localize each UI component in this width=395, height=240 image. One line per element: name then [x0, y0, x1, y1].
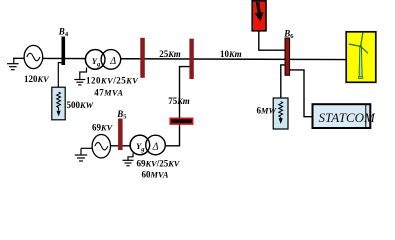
svg-text:Δ: Δ [109, 56, 116, 67]
svg-text:500KW: 500KW [67, 100, 94, 110]
svg-text:47MVA: 47MVA [94, 87, 123, 97]
svg-text:120KV/25KV: 120KV/25KV [86, 76, 139, 86]
svg-text:69KV: 69KV [92, 123, 114, 133]
svg-text:10Km: 10Km [220, 49, 242, 59]
svg-text:120KV: 120KV [24, 74, 50, 84]
svg-text:Δ: Δ [152, 141, 159, 152]
svg-text:25Km: 25Km [159, 49, 181, 59]
svg-text:75Km: 75Km [168, 96, 190, 106]
svg-text:69KV/25KV: 69KV/25KV [137, 158, 181, 168]
svg-text:STATCOM: STATCOM [319, 110, 377, 125]
svg-text:6MW: 6MW [257, 106, 277, 116]
svg-text:60MVA: 60MVA [142, 170, 169, 180]
